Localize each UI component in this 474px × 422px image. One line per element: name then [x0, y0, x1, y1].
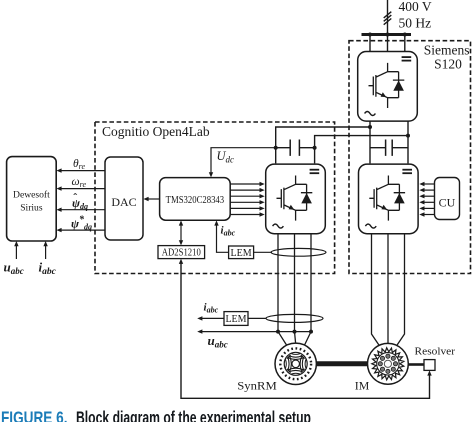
- junction dots DC link: [368, 125, 372, 129]
- junction dots on bus bar: [368, 33, 372, 37]
- DAC box: [105, 157, 143, 240]
- wire DC rail right: [407, 121, 409, 163]
- svg-text:400 V: 400 V: [399, 0, 432, 14]
- LEM current sensor box (control): [229, 246, 254, 259]
- converter rectifier (Siemens line-side): [358, 52, 418, 122]
- junction dots u_abc taps: [276, 330, 280, 334]
- svg-text:S120: S120: [434, 57, 462, 72]
- svg-text:Dewesoft: Dewesoft: [13, 190, 50, 201]
- Siemens S120 dashed enclosure: [349, 41, 471, 274]
- svg-text:LEM: LEM: [225, 314, 246, 325]
- shaft SynRM to IM: [316, 361, 369, 366]
- svg-text:Cognitio Open4Lab: Cognitio Open4Lab: [102, 124, 210, 139]
- signal arrows DAC to Dewesoft: [61, 170, 105, 172]
- arrow i_abc measurement out: [202, 317, 224, 319]
- svg-text:AD2S1210: AD2S1210: [162, 248, 201, 259]
- double arrow TMS and AD2S1210: [180, 225, 182, 243]
- supply bus bar: [362, 33, 412, 36]
- arrow TMS to DAC: [148, 198, 160, 200]
- svg-text:Block diagram of the experimen: Block diagram of the experimental setup: [76, 407, 311, 422]
- svg-text:50 Hz: 50 Hz: [399, 16, 432, 31]
- DSP TMS320C28343 box: [160, 178, 231, 221]
- svg-text:FIGURE 6.: FIGURE 6.: [1, 407, 68, 422]
- svg-text:LEM: LEM: [231, 248, 252, 259]
- svg-text:IM: IM: [355, 379, 370, 393]
- wire LEM to TMS i_abc: [217, 225, 229, 253]
- arrow u_abc measurement tap: [202, 331, 311, 333]
- wire U_dc sense: [211, 148, 276, 173]
- wire SynRM phase b: [295, 234, 296, 343]
- wire DC- link to Open4Lab converter: [315, 136, 408, 148]
- wire IM phase b: [387, 234, 389, 344]
- wire LEM to sensor ring (measurement): [248, 317, 266, 319]
- shaft IM to resolver: [408, 363, 424, 366]
- AD2S1210 box: [158, 246, 205, 259]
- CU gate signal arrows: [424, 183, 435, 185]
- junction dots on capacitor node: [274, 146, 278, 150]
- current sensor ring (measurement LEM): [266, 314, 323, 322]
- svg-text:Siemens: Siemens: [424, 43, 470, 58]
- machine IM: [368, 343, 409, 384]
- wire LEM to sensor ring: [254, 251, 272, 253]
- resolver box: [424, 360, 435, 371]
- arrow i_abc into Dewesoft: [45, 246, 47, 260]
- gate signal arrows TMS to converter: [230, 183, 260, 185]
- wire SynRM phase a: [278, 234, 287, 346]
- capacitor Siemens DC link: [370, 147, 408, 149]
- wire DC+ link to Open4Lab converter: [276, 127, 370, 148]
- svg-text:Resolver: Resolver: [415, 345, 456, 357]
- svg-text:SynRM: SynRM: [237, 379, 277, 393]
- three-phase slash marks: [384, 12, 392, 25]
- converter Siemens motor-side inverter: [359, 164, 419, 234]
- capacitor Open4Lab DC link: [276, 147, 315, 149]
- svg-text:DAC: DAC: [111, 195, 136, 209]
- arrow u_abc into Dewesoft: [15, 246, 17, 260]
- machine SynRM: [275, 343, 316, 384]
- Dewesoft Sirius box: [7, 157, 57, 241]
- wire SynRM phase c: [304, 234, 311, 346]
- wire supply line: [387, 0, 389, 34]
- svg-text:ˆ: ˆ: [73, 191, 77, 205]
- Cognitio Open4Lab dashed enclosure: [95, 122, 335, 274]
- wire IM phase c: [396, 234, 405, 347]
- converter U-open4lab inverter: [266, 164, 326, 234]
- wire resolver to AD2S1210: [181, 263, 430, 398]
- wire phase drops to rectifier: [370, 35, 405, 52]
- wire IM phase a: [372, 234, 381, 347]
- current sensor ring (control LEM): [271, 248, 326, 256]
- svg-text:CU: CU: [439, 196, 456, 210]
- control unit CU box: [435, 178, 460, 220]
- svg-text:TMS320C28343: TMS320C28343: [166, 194, 225, 206]
- wire drops into Open4Lab converter: [276, 148, 315, 164]
- LEM current sensor box (measurement): [224, 312, 248, 326]
- wire DC rail left (rectifier to inverter): [369, 121, 371, 163]
- svg-text:Sirius: Sirius: [20, 203, 43, 214]
